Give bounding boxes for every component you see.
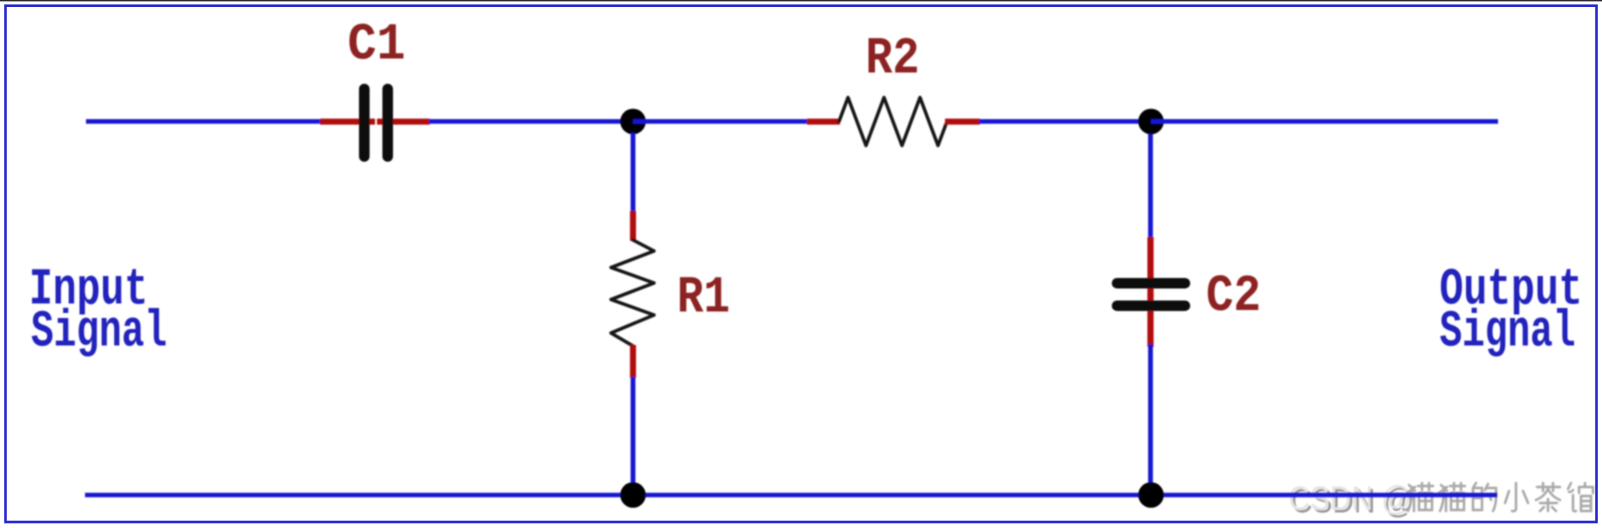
svg-text:CSDN @: CSDN @ [1289,480,1412,518]
wire: R2 to node B [979,119,1152,124]
junction node C (R1 to bottom rail) [620,482,646,508]
svg-text:C1: C1 [348,16,406,75]
net label Output Signal [1440,261,1583,362]
svg-text:Signal: Signal [31,303,167,362]
wire: top rail, input end to C1 pin [86,119,321,124]
pin 2 of C1 (red stub) [377,119,430,125]
pin 1 of C1 (red stub) [320,119,375,125]
resistor R2 [839,98,947,146]
pin 2 of R2 (red stub) [945,119,980,125]
svg-text:R1: R1 [677,269,730,328]
net label Input Signal [29,261,167,362]
wire: node B down to C2 [1148,134,1153,240]
capacitor C1 [364,89,387,157]
wire: C2 to bottom rail [1148,344,1153,484]
svg-text:C2: C2 [1206,267,1261,326]
junction node A [620,109,646,135]
svg-text:R2: R2 [866,30,920,89]
pin 1 of C2 (red stub) [1147,237,1153,296]
capacitor C2 [1117,283,1185,306]
pin 2 of C2 (red stub) [1147,294,1153,347]
wire: R1 to bottom rail [631,377,636,484]
wire: bottom rail [85,493,1497,498]
svg-text:Signal: Signal [1440,303,1576,362]
resistor R1 [611,240,654,346]
junction node B [1138,109,1164,135]
pin 1 of R2 (red stub) [807,119,840,125]
wire: C1 to node A [429,119,634,124]
wire: node A to R2 pin [633,119,808,124]
wire: node A down to R1 [631,133,636,213]
pin 1 of R1 (red stub) [630,211,636,241]
pin 2 of R1 (red stub) [630,345,636,378]
junction node D (C2 to bottom rail) [1138,482,1164,508]
wire: node B to output end [1151,119,1498,124]
